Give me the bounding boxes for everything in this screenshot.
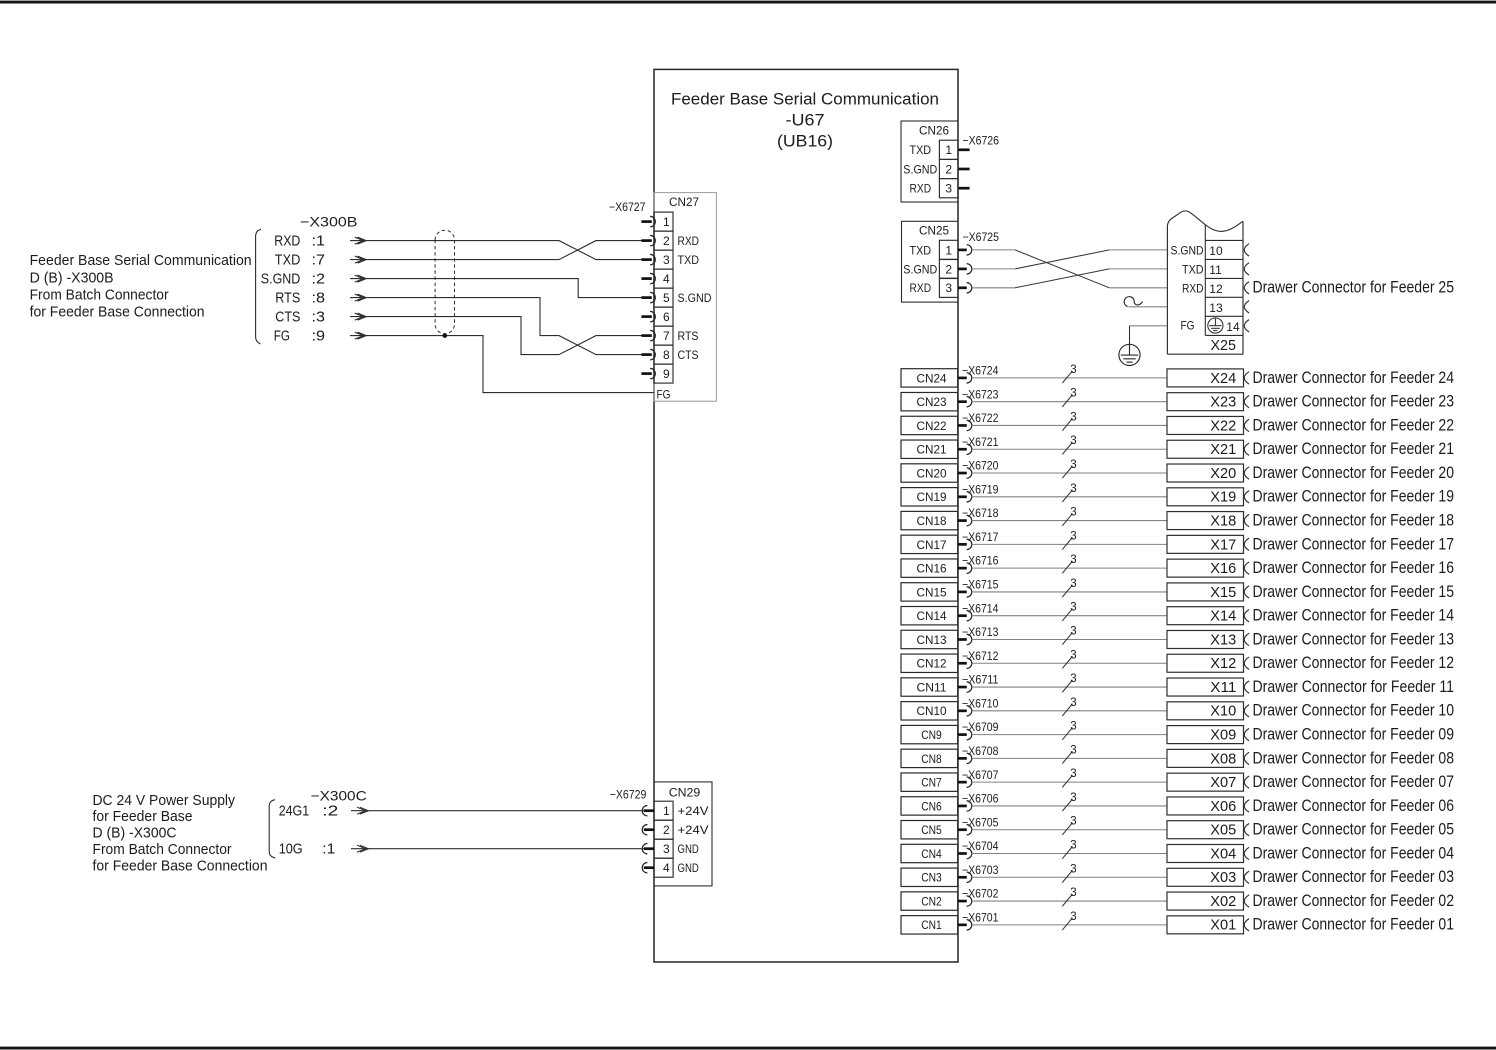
svg-text:X06: X06 [1210, 798, 1236, 815]
CN25 pin 1 box [939, 240, 958, 259]
CN29 pin 4 box [654, 858, 673, 877]
bottom page border bar [0, 1047, 1496, 1050]
svg-text::7: :7 [312, 252, 326, 269]
X18 mating contact [1244, 514, 1249, 526]
CN5 contact [958, 828, 967, 831]
svg-text:−X6701: −X6701 [962, 910, 999, 924]
svg-text:10: 10 [1209, 244, 1223, 258]
svg-text:7: 7 [663, 329, 670, 343]
wire CN7 to X07 [972, 781, 1167, 783]
connector X06 [1167, 797, 1244, 815]
svg-text:Drawer Connector for Feeder 20: Drawer Connector for Feeder 20 [1253, 463, 1455, 482]
svg-text:3: 3 [1070, 887, 1076, 899]
svg-text:−X6720: −X6720 [962, 459, 999, 473]
wire X25 FG to ground [1130, 325, 1168, 327]
connector X14 [1167, 607, 1244, 625]
CN27 pin 7 contact [641, 334, 651, 337]
bus slash (3 conductors) [1062, 704, 1072, 716]
wire CN19 to X19 [972, 496, 1167, 498]
bus slash (3 conductors) [1062, 609, 1072, 621]
svg-text:S.GND: S.GND [261, 271, 301, 288]
svg-text:for Feeder Base Connection: for Feeder Base Connection [93, 857, 268, 874]
svg-text:−X6703: −X6703 [962, 863, 999, 877]
connector CN12 [901, 654, 958, 672]
svg-text:−X6702: −X6702 [962, 887, 999, 901]
CN7 contact [958, 781, 967, 784]
svg-text:−X6709: −X6709 [962, 720, 999, 734]
wire CN6 to X06 [972, 805, 1167, 807]
svg-text:CN11: CN11 [917, 680, 947, 694]
connector X18 [1167, 512, 1244, 530]
X25 pin 14 earth symbol [1208, 318, 1223, 333]
arrow RXD [358, 237, 367, 244]
svg-text:3: 3 [1070, 697, 1076, 709]
arrow S.GND [358, 275, 367, 282]
svg-text:S.GND: S.GND [903, 162, 937, 176]
wire CN16 to X16 [972, 567, 1167, 569]
svg-text::1: :1 [312, 233, 326, 250]
CN25 pin 1 contact [958, 249, 967, 252]
svg-text:X11: X11 [1210, 679, 1236, 696]
svg-text:CN25: CN25 [919, 224, 949, 238]
svg-text:S.GND: S.GND [678, 291, 712, 305]
svg-text:CN20: CN20 [917, 466, 947, 480]
svg-text:TXD: TXD [910, 143, 932, 157]
svg-text:3: 3 [1070, 721, 1076, 733]
svg-text:3: 3 [1070, 483, 1076, 495]
wire CN8 to X08 [972, 757, 1167, 759]
wire CN23 to X23 [972, 401, 1167, 403]
X04 mating contact [1244, 847, 1249, 859]
svg-text:CN26: CN26 [919, 124, 949, 138]
svg-text:3: 3 [663, 253, 670, 267]
X05 mating contact [1244, 824, 1249, 836]
CN27 pin 4 box [654, 269, 673, 288]
connector CN26 [901, 121, 958, 202]
svg-text:3: 3 [1070, 578, 1076, 590]
svg-text:TXD: TXD [275, 252, 301, 269]
CN9 contact [958, 733, 967, 736]
svg-text:3: 3 [1070, 411, 1076, 423]
svg-text:Drawer Connector for Feeder 17: Drawer Connector for Feeder 17 [1253, 534, 1455, 553]
connector CN5 [901, 821, 958, 839]
svg-text:CN7: CN7 [921, 776, 942, 790]
connector CN17 [901, 535, 958, 553]
CN27 pin 2 box [654, 231, 673, 250]
connector X02 [1167, 892, 1244, 910]
svg-text:S.GND: S.GND [1171, 244, 1204, 258]
connector CN1 [901, 916, 958, 934]
CN27 pin 2 contact [641, 239, 651, 242]
wire CN3 to X03 [972, 876, 1167, 878]
arrow CTS [358, 313, 367, 320]
svg-text:CN6: CN6 [921, 799, 942, 813]
X15 mating contact [1244, 586, 1249, 598]
CN26 pin 3 box [939, 179, 958, 198]
svg-text:Drawer Connector for Feeder 14: Drawer Connector for Feeder 14 [1253, 606, 1455, 625]
svg-text:−X6710: −X6710 [962, 696, 999, 710]
X20 mating contact [1244, 467, 1249, 479]
CN13 contact [958, 638, 967, 641]
connector CN14 [901, 607, 958, 625]
svg-text:14: 14 [1226, 320, 1240, 334]
CN29 pin 1 contact [642, 806, 647, 816]
svg-text:Drawer Connector for Feeder 19: Drawer Connector for Feeder 19 [1253, 487, 1455, 506]
svg-text:for Feeder Base: for Feeder Base [93, 808, 193, 825]
X12 mating contact [1244, 657, 1249, 669]
arrow 24G1 [360, 807, 369, 814]
connector CN16 [901, 559, 958, 577]
svg-text:From Batch Connector: From Batch Connector [93, 841, 232, 858]
CN27 pin 8 contact [641, 353, 651, 356]
wire CN13 to X13 [972, 638, 1167, 640]
X25 mating contact [1244, 244, 1249, 256]
bus slash (3 conductors) [1062, 847, 1072, 859]
bus slash (3 conductors) [1062, 537, 1072, 549]
connector X11 [1167, 678, 1244, 696]
svg-text:CN19: CN19 [917, 490, 947, 504]
svg-text:FG: FG [274, 328, 290, 345]
connector X21 [1167, 440, 1244, 458]
svg-text:CN1: CN1 [921, 918, 942, 932]
svg-text:3: 3 [1070, 602, 1076, 614]
bus slash (3 conductors) [1062, 442, 1072, 454]
CN10 contact [958, 709, 967, 712]
svg-text:10G: 10G [279, 841, 303, 858]
X03 mating contact [1244, 871, 1249, 883]
connector X13 [1167, 630, 1244, 648]
svg-text:Drawer Connector for Feeder 01: Drawer Connector for Feeder 01 [1253, 915, 1455, 934]
svg-text:RXD: RXD [1182, 281, 1204, 295]
svg-text:X14: X14 [1210, 608, 1236, 625]
CN27 pin 8 box [654, 345, 673, 364]
connector CN10 [901, 702, 958, 720]
svg-text:8: 8 [663, 348, 670, 362]
bus slash (3 conductors) [1062, 728, 1072, 740]
wire CN21 to X21 [972, 448, 1167, 450]
arrow RTS [358, 294, 367, 301]
svg-text:−X6708: −X6708 [962, 744, 999, 758]
bus slash (3 conductors) [1062, 371, 1072, 383]
svg-text:CN16: CN16 [917, 562, 947, 576]
svg-text:Drawer Connector for Feeder 09: Drawer Connector for Feeder 09 [1253, 725, 1455, 744]
svg-text:X10: X10 [1210, 703, 1236, 720]
brace X300B group [256, 229, 261, 344]
svg-text:X04: X04 [1210, 845, 1236, 862]
CN27 pin 3 box [654, 250, 673, 269]
protective ground symbol [1119, 344, 1140, 365]
svg-text:CN2: CN2 [921, 894, 942, 908]
svg-text:−X6724: −X6724 [962, 364, 999, 378]
svg-text:CN29: CN29 [669, 785, 701, 799]
svg-text:CN9: CN9 [921, 728, 942, 742]
CN14 contact [958, 614, 967, 617]
svg-text:X08: X08 [1210, 750, 1236, 767]
svg-text:−X6726: −X6726 [963, 134, 1000, 148]
arrow FG [358, 332, 367, 339]
CN19 contact [958, 495, 967, 498]
bus slash (3 conductors) [1062, 514, 1072, 526]
svg-text:4: 4 [663, 272, 670, 286]
X11 mating contact [1244, 681, 1249, 693]
svg-text:3: 3 [945, 281, 952, 295]
CN12 contact [958, 662, 967, 665]
svg-text:2: 2 [945, 262, 952, 276]
bus slash (3 conductors) [1062, 585, 1072, 597]
svg-text:From Batch Connector: From Batch Connector [30, 286, 169, 303]
wire CN11 to X11 [972, 686, 1167, 688]
X25 mating contact [1244, 282, 1249, 294]
svg-text:3: 3 [1070, 507, 1076, 519]
bus slash (3 conductors) [1062, 632, 1072, 644]
arrow 10G [360, 845, 369, 852]
X09 mating contact [1244, 728, 1249, 740]
connector X01 [1167, 916, 1244, 934]
CN27 pin 5 box [654, 288, 673, 307]
CN2 contact [958, 900, 967, 903]
svg-text:1: 1 [663, 215, 670, 229]
wire CN25 S.GND to X25 pin10 [972, 268, 1015, 270]
svg-text:3: 3 [1070, 364, 1076, 376]
connector CN23 [901, 392, 958, 410]
wire FG to CN27 FG [350, 336, 654, 393]
connector X22 [1167, 416, 1244, 434]
bus slash (3 conductors) [1062, 680, 1072, 692]
svg-text:GND: GND [678, 842, 700, 856]
wire CN1 to X01 [972, 924, 1167, 926]
svg-text:X09: X09 [1210, 727, 1236, 744]
svg-text::8: :8 [312, 290, 326, 307]
connector X17 [1167, 535, 1244, 553]
svg-text:−X6704: −X6704 [962, 839, 999, 853]
svg-text:−X6705: −X6705 [962, 815, 999, 829]
svg-text:X19: X19 [1210, 489, 1236, 506]
svg-text:−X6714: −X6714 [962, 601, 999, 615]
bus slash (3 conductors) [1062, 799, 1072, 811]
svg-text:X13: X13 [1210, 631, 1236, 648]
svg-text:−X6711: −X6711 [962, 673, 999, 687]
svg-text:for Feeder Base Connection: for Feeder Base Connection [30, 303, 205, 320]
wire RXD to CN27 pin3 [350, 241, 642, 260]
arrow TXD [358, 256, 367, 263]
CN25 pin 2 contact [958, 268, 967, 271]
svg-text:3: 3 [1070, 792, 1076, 804]
wire CN15 to X15 [972, 591, 1167, 593]
svg-text:CN21: CN21 [917, 443, 947, 457]
CN27 pin 3 contact [641, 258, 651, 261]
connector CN27 [654, 193, 716, 402]
svg-text:−X6722: −X6722 [962, 411, 999, 425]
svg-text:DC 24 V Power Supply: DC 24 V Power Supply [93, 792, 236, 809]
X21 mating contact [1244, 443, 1249, 455]
svg-text:RXD: RXD [910, 182, 932, 196]
X25 mating contact [1244, 263, 1249, 275]
svg-text:TXD: TXD [1182, 263, 1204, 277]
svg-text:FG: FG [1181, 319, 1195, 333]
wire 10G to CN29 pin3 [351, 848, 644, 850]
svg-text:D (B) -X300B: D (B) -X300B [30, 269, 114, 286]
wire CN14 to X14 [972, 615, 1167, 617]
cable shield capsule (dashed) [435, 230, 454, 334]
connector X09 [1167, 726, 1244, 744]
svg-text::1: :1 [322, 841, 335, 858]
svg-text:X20: X20 [1210, 465, 1236, 482]
svg-text:X18: X18 [1210, 512, 1236, 529]
svg-text:Drawer Connector for Feeder 02: Drawer Connector for Feeder 02 [1253, 891, 1455, 910]
svg-text:5: 5 [663, 291, 670, 305]
svg-text:X05: X05 [1210, 822, 1236, 839]
bus slash (3 conductors) [1062, 775, 1072, 787]
svg-text:CN5: CN5 [921, 823, 942, 837]
X17 mating contact [1244, 538, 1249, 550]
svg-text:CN14: CN14 [917, 609, 947, 623]
CN27 pin 1 contact [641, 220, 651, 223]
CN26 pin 2 stub [959, 168, 970, 171]
svg-text:S.GND: S.GND [903, 262, 937, 276]
svg-text:−X6727: −X6727 [609, 200, 646, 214]
svg-text:D (B) -X300C: D (B) -X300C [93, 825, 177, 842]
svg-text:CN23: CN23 [917, 395, 947, 409]
CN24 contact [958, 377, 967, 380]
CN1 contact [958, 923, 967, 926]
svg-text:−X6707: −X6707 [962, 768, 999, 782]
wire CN17 to X17 [972, 543, 1167, 545]
svg-text:Drawer Connector for Feeder 15: Drawer Connector for Feeder 15 [1253, 582, 1455, 601]
wire CN9 to X09 [972, 734, 1167, 736]
svg-text:Drawer Connector for Feeder 04: Drawer Connector for Feeder 04 [1253, 843, 1455, 862]
svg-text:Feeder Base Serial Communicati: Feeder Base Serial Communication [30, 252, 252, 269]
svg-text:(UB16): (UB16) [777, 131, 833, 150]
wire CN12 to X12 [972, 662, 1167, 664]
X16 mating contact [1244, 562, 1249, 574]
svg-text:2: 2 [663, 234, 670, 248]
svg-text:3: 3 [1070, 673, 1076, 685]
connector CN19 [901, 488, 958, 506]
svg-text:Drawer Connector for Feeder 16: Drawer Connector for Feeder 16 [1253, 558, 1455, 577]
svg-text:3: 3 [1070, 554, 1076, 566]
svg-text:CN4: CN4 [921, 847, 942, 861]
svg-text:3: 3 [663, 842, 670, 856]
svg-text:Drawer Connector for Feeder 23: Drawer Connector for Feeder 23 [1253, 392, 1455, 411]
connector CN22 [901, 416, 958, 434]
svg-text:Drawer Connector for Feeder 08: Drawer Connector for Feeder 08 [1253, 748, 1455, 767]
bus slash (3 conductors) [1062, 823, 1072, 835]
CN26 pin 1 box [939, 140, 958, 159]
svg-text:CN3: CN3 [921, 871, 942, 885]
svg-text:−X6721: −X6721 [962, 435, 999, 449]
svg-text:Drawer Connector for Feeder 18: Drawer Connector for Feeder 18 [1253, 510, 1455, 529]
svg-text:3: 3 [1070, 530, 1076, 542]
svg-text:9: 9 [663, 367, 670, 381]
connector X03 [1167, 868, 1244, 886]
svg-text:−X6713: −X6713 [962, 625, 999, 639]
svg-text:RTS: RTS [275, 290, 300, 307]
CN18 contact [958, 519, 967, 522]
svg-text:3: 3 [1070, 863, 1076, 875]
svg-text:4: 4 [663, 861, 670, 875]
svg-text:3: 3 [1070, 816, 1076, 828]
svg-text:3: 3 [1070, 625, 1076, 637]
svg-text:Drawer Connector for Feeder 13: Drawer Connector for Feeder 13 [1253, 629, 1455, 648]
unit U67 Feeder Base Serial Communication box [654, 69, 958, 962]
svg-text:−X300C: −X300C [311, 788, 367, 804]
connector CN15 [901, 583, 958, 601]
svg-text:3: 3 [1070, 768, 1076, 780]
svg-text:1: 1 [945, 143, 952, 157]
svg-text:Drawer Connector for Feeder 03: Drawer Connector for Feeder 03 [1253, 867, 1455, 886]
svg-text:Drawer Connector for Feeder 21: Drawer Connector for Feeder 21 [1253, 439, 1455, 458]
svg-text:CN10: CN10 [917, 704, 947, 718]
CN25 pin 3 box [939, 278, 958, 297]
svg-text:Drawer Connector for Feeder 10: Drawer Connector for Feeder 10 [1253, 701, 1455, 720]
CN22 contact [958, 424, 967, 427]
connector CN8 [901, 749, 958, 767]
connector CN11 [901, 678, 958, 696]
svg-text::2: :2 [312, 271, 326, 288]
svg-text:−X6723: −X6723 [962, 387, 999, 401]
CN21 contact [958, 448, 967, 451]
wire CN5 to X05 [972, 829, 1167, 831]
svg-text:3: 3 [1070, 911, 1076, 923]
CN26 pin 2 box [939, 159, 958, 178]
bus slash (3 conductors) [1062, 490, 1072, 502]
X07 mating contact [1244, 776, 1249, 788]
connector X24 [1167, 369, 1244, 387]
CN26 pin 3 stub [959, 187, 970, 190]
connector CN3 [901, 868, 958, 886]
svg-text:X21: X21 [1210, 441, 1236, 458]
X02 mating contact [1244, 895, 1249, 907]
X25 mating contact [1244, 320, 1249, 332]
wire 24G1 to CN29 pin1 [351, 810, 644, 812]
svg-text:X01: X01 [1210, 917, 1236, 934]
svg-text:-U67: -U67 [786, 110, 825, 129]
svg-text:X03: X03 [1210, 869, 1236, 886]
wire CN25 TXD to X25 pin12 [972, 249, 1015, 251]
svg-text:Feeder Base Serial Communicati: Feeder Base Serial Communication [671, 90, 939, 109]
CN29 pin 1 box [654, 801, 673, 820]
svg-text:Drawer Connector for Feeder 05: Drawer Connector for Feeder 05 [1253, 820, 1455, 839]
CN29 pin 4 contact [642, 863, 647, 873]
CN25 pin 2 box [939, 259, 958, 278]
svg-text::3: :3 [312, 309, 326, 326]
svg-text:3: 3 [1070, 459, 1076, 471]
connector X05 [1167, 821, 1244, 839]
svg-text:13: 13 [1209, 301, 1223, 315]
connector X04 [1167, 845, 1244, 863]
X14 mating contact [1244, 610, 1249, 622]
CN15 contact [958, 591, 967, 594]
wire CN10 to X10 [972, 710, 1167, 712]
svg-text:1: 1 [663, 804, 670, 818]
svg-text::9: :9 [312, 328, 326, 345]
CN27 pin 1 box [654, 212, 673, 231]
X25 body [1166, 227, 1168, 355]
wire CN18 to X18 [972, 520, 1167, 522]
CN27 pin 7 box [654, 326, 673, 345]
svg-text::2: :2 [322, 802, 338, 819]
svg-text:−X6719: −X6719 [962, 482, 999, 496]
svg-text:3: 3 [1070, 435, 1076, 447]
svg-text:CN12: CN12 [917, 657, 947, 671]
svg-text:CN17: CN17 [917, 538, 947, 552]
connector CN7 [901, 773, 958, 791]
svg-text:CTS: CTS [275, 309, 300, 326]
wire CN25 RXD to X25 pin11 [972, 287, 1015, 289]
CN27 pin 9 box [654, 364, 673, 383]
svg-text:CN8: CN8 [921, 752, 942, 766]
bus slash (3 conductors) [1062, 656, 1072, 668]
